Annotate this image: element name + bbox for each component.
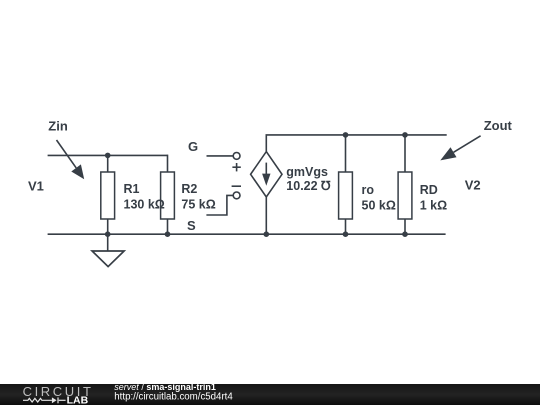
wire R2 top drop — [167, 155, 169, 172]
ground — [92, 251, 124, 267]
Zin arrow — [57, 140, 85, 179]
junction dots — [105, 132, 408, 237]
wire diamond bottom drop — [265, 197, 267, 234]
svg-text:R1: R1 — [124, 182, 140, 196]
wire RD top stub — [404, 135, 406, 172]
Zout arrow — [440, 136, 480, 161]
svg-text:G: G — [188, 139, 198, 154]
resistor ro — [339, 172, 353, 219]
svg-text:Zin: Zin — [48, 118, 68, 133]
svg-text:RD: RD — [420, 183, 438, 197]
svg-text:LAB: LAB — [67, 395, 89, 405]
node junction RD bottom — [402, 231, 408, 237]
plus sign — [232, 163, 240, 171]
minus sign — [232, 185, 241, 187]
node G terminal circle — [233, 153, 240, 160]
node junction ro top — [343, 132, 349, 138]
svg-text:R2: R2 — [181, 182, 197, 196]
svg-text:130 kΩ: 130 kΩ — [124, 198, 165, 212]
wire R2 bottom stub — [167, 219, 169, 234]
wire diamond top drop — [265, 135, 267, 152]
resistor RD — [398, 172, 412, 219]
resistor R1 — [101, 172, 115, 219]
svg-text:ro: ro — [362, 183, 375, 197]
svg-text:S: S — [187, 218, 196, 233]
svg-text:http://circuitlab.com/c5d4rt4: http://circuitlab.com/c5d4rt4 — [114, 391, 233, 402]
svg-text:10.22 ℧: 10.22 ℧ — [286, 179, 331, 193]
dependent source U1 diamond — [251, 152, 282, 197]
wire RD bottom stub — [404, 219, 406, 234]
node junction R2 bottom — [165, 231, 171, 237]
svg-text:V2: V2 — [465, 178, 481, 193]
node junction diamond bottom — [264, 231, 270, 237]
node junction R1 bottom — [105, 231, 111, 237]
logo resistor zigzag and diode — [23, 397, 66, 403]
svg-text:75 kΩ: 75 kΩ — [181, 198, 215, 212]
wire ground stub — [107, 234, 109, 251]
wire ro top stub — [345, 135, 347, 172]
node junction RD top — [402, 132, 408, 138]
svg-text:V1: V1 — [28, 178, 44, 193]
svg-text:gmVgs: gmVgs — [286, 165, 328, 179]
svg-text:Zout: Zout — [484, 118, 513, 133]
wire R1 bottom stub — [107, 219, 109, 234]
node junction ro bottom — [343, 231, 349, 237]
wire ro bottom stub — [345, 219, 347, 234]
wire bottom rail — [48, 233, 446, 235]
wire S terminal elbow — [206, 195, 233, 215]
node S terminal circle — [233, 192, 240, 199]
resistor R2 — [161, 172, 175, 219]
node junction R1 top — [105, 153, 111, 159]
wire R1 top stub — [107, 155, 109, 172]
wire top-right rail — [266, 134, 447, 136]
svg-text:50 kΩ: 50 kΩ — [362, 199, 396, 213]
wire top-left rail — [48, 154, 168, 156]
wire G terminal lead — [207, 155, 234, 157]
svg-text:1 kΩ: 1 kΩ — [420, 199, 447, 213]
